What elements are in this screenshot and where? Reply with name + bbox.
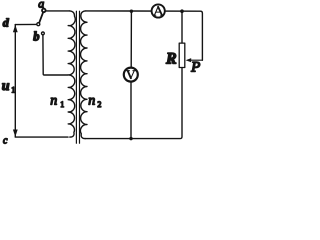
wiper arrowhead (186, 58, 192, 62)
terminal a contact (42, 9, 46, 13)
svg-text:b: b (33, 30, 39, 44)
svg-text:1: 1 (60, 100, 64, 109)
svg-text:d: d (3, 16, 10, 30)
wire: b down and right to winding tap (43, 35, 68, 75)
primary winding n1 (68, 11, 75, 137)
voltmeter branch wire top (130, 11, 132, 67)
junction dot top V (130, 10, 133, 13)
svg-text:n: n (50, 94, 57, 109)
wire: top-left horizontal d to switch pivot (15, 23, 36, 25)
arrowhead down (at c) (13, 130, 18, 137)
arrowhead up (at d) (13, 25, 18, 32)
wire: bottom-left horizontal c to primary bottom (15, 136, 68, 138)
junction dot R branch (180, 9, 184, 13)
svg-text:n: n (88, 93, 95, 108)
svg-text:P: P (190, 60, 200, 76)
switch pivot contact circle (37, 23, 40, 26)
wire: R branch down to resistor (181, 11, 183, 43)
wire: secondary bottom to right (85, 68, 182, 139)
secondary winding n2 (80, 11, 87, 139)
wire: left vertical u1 line (d to c) (14, 25, 16, 137)
ammeter letter A (153, 7, 163, 16)
core line left (75, 11, 77, 143)
ammeter A (152, 4, 165, 17)
wire: secondary top to right (86, 11, 203, 60)
svg-text:2: 2 (97, 100, 101, 109)
wire: terminal a to primary winding top (46, 10, 70, 12)
terminal b contact (42, 32, 45, 35)
svg-text:R: R (165, 50, 177, 67)
resistor R body (179, 43, 185, 67)
switch blade to terminal a (39, 12, 43, 23)
svg-text:a: a (38, 0, 44, 11)
wiper arrow P (191, 59, 203, 61)
core line right (79, 11, 81, 143)
voltmeter V (124, 68, 138, 82)
svg-text:u: u (2, 79, 10, 94)
voltmeter letter V (127, 71, 136, 79)
junction dot bottom V (129, 137, 132, 140)
svg-text:1: 1 (11, 86, 15, 95)
voltmeter branch wire bottom (130, 82, 132, 139)
svg-text:c: c (3, 135, 8, 146)
